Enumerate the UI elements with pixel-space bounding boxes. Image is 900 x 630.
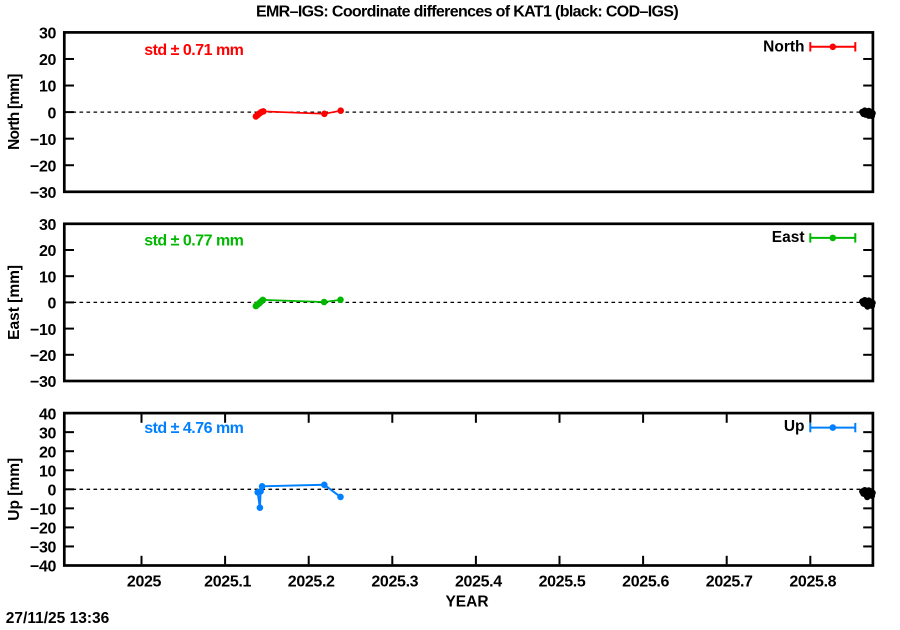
- svg-text:2025.1: 2025.1: [204, 574, 251, 591]
- svg-text:10: 10: [39, 463, 56, 480]
- svg-text:27/11/25 13:36: 27/11/25 13:36: [6, 610, 110, 627]
- svg-text:40: 40: [39, 406, 56, 423]
- svg-text:−10: −10: [30, 132, 56, 149]
- svg-text:10: 10: [39, 79, 56, 96]
- svg-text:−20: −20: [30, 158, 56, 175]
- svg-text:2025.8: 2025.8: [789, 574, 836, 591]
- svg-text:2025: 2025: [127, 574, 162, 591]
- svg-text:2025.5: 2025.5: [539, 574, 586, 591]
- svg-text:−30: −30: [30, 540, 56, 557]
- svg-text:North: North: [763, 39, 804, 56]
- svg-text:20: 20: [39, 243, 56, 260]
- svg-text:−20: −20: [30, 521, 56, 538]
- svg-text:East: East: [772, 229, 805, 246]
- svg-text:YEAR: YEAR: [445, 594, 488, 611]
- svg-text:−20: −20: [30, 348, 56, 365]
- svg-text:−30: −30: [30, 374, 56, 391]
- svg-text:0: 0: [48, 483, 57, 500]
- svg-text:30: 30: [39, 425, 56, 442]
- svg-text:2025.3: 2025.3: [371, 574, 418, 591]
- svg-text:30: 30: [39, 26, 56, 43]
- svg-text:2025.4: 2025.4: [455, 574, 502, 591]
- svg-text:North [mm]: North [mm]: [6, 74, 23, 150]
- svg-text:−10: −10: [30, 322, 56, 339]
- svg-text:2025.2: 2025.2: [288, 574, 335, 591]
- svg-text:−30: −30: [30, 185, 56, 202]
- svg-text:−40: −40: [30, 559, 56, 576]
- svg-text:East [mm]: East [mm]: [6, 265, 23, 340]
- svg-text:10: 10: [39, 269, 56, 286]
- svg-text:Up: Up: [784, 418, 805, 435]
- svg-text:Up [mm]: Up [mm]: [6, 458, 23, 521]
- svg-text:−10: −10: [30, 502, 56, 519]
- svg-text:std ± 4.76 mm: std ± 4.76 mm: [144, 420, 243, 437]
- svg-text:20: 20: [39, 52, 56, 69]
- svg-text:2025.6: 2025.6: [622, 574, 669, 591]
- svg-text:0: 0: [48, 105, 57, 122]
- svg-text:30: 30: [39, 217, 56, 234]
- svg-text:EMR–IGS: Coordinate difference: EMR–IGS: Coordinate differences of KAT1 …: [256, 4, 678, 21]
- svg-text:0: 0: [48, 296, 57, 313]
- svg-text:2025.7: 2025.7: [706, 574, 753, 591]
- svg-text:20: 20: [39, 444, 56, 461]
- svg-text:std ± 0.77 mm: std ± 0.77 mm: [144, 233, 243, 250]
- svg-text:std ± 0.71 mm: std ± 0.71 mm: [144, 42, 243, 59]
